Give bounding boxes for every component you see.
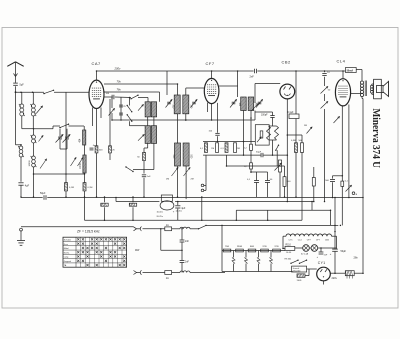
- wire IFT2 sec to caps: [243, 142, 245, 156]
- svg-text:20-25v: 20-25v: [157, 216, 164, 218]
- svg-text:25: 25: [112, 150, 115, 152]
- resistor R6 0.1M box: [288, 112, 300, 119]
- coil L2 antenna secondary: [30, 92, 53, 129]
- svg-text:1A: 1A: [166, 224, 169, 227]
- capacitor C20 electrolytic: [317, 252, 328, 259]
- wire IFT2 secondary bottom: [244, 111, 252, 142]
- svg-text:HS 362: HS 362: [285, 258, 293, 260]
- capacitor C6 25pF: [119, 105, 126, 108]
- trimmer capacitor IFT1 primary: [166, 100, 173, 108]
- svg-text:28v: 28v: [354, 256, 359, 260]
- wire CA7 anode top: [96, 71, 98, 80]
- wire OSCB bottom right: [133, 143, 154, 169]
- terminal a: [352, 192, 357, 196]
- transformer IFT1 secondary winding 300: [183, 95, 192, 114]
- trimmer capacitor band set A: [56, 129, 64, 143]
- speaker LS magnet: [377, 86, 384, 93]
- lamp La1: [303, 245, 310, 252]
- svg-text:0,1: 0,1: [345, 180, 349, 182]
- svg-text:+: +: [317, 256, 319, 259]
- switch S8 det: [275, 145, 279, 167]
- surge arrester 2: [245, 251, 248, 272]
- detector filter frame: [255, 125, 269, 145]
- resistor R15 bus link: [101, 198, 108, 221]
- capacitor C13 50pF: [265, 172, 273, 197]
- wire filter drop: [161, 229, 182, 251]
- capacitor C7: [119, 113, 123, 115]
- svg-text:500: 500: [287, 181, 291, 183]
- resistor R5 50: [137, 152, 145, 173]
- svg-text:1A: 1A: [166, 277, 169, 280]
- wire IFT1 secondary bottom AVC: [112, 114, 255, 120]
- trimmer capacitor 50: [321, 87, 332, 94]
- svg-text:10-50v: 10-50v: [157, 212, 164, 214]
- svg-text:50µF: 50µF: [40, 192, 46, 195]
- svg-text:TA: TA: [64, 264, 67, 267]
- trimmer capacitor OSCB: [138, 135, 144, 141]
- coil L5 wave trap: [18, 145, 24, 182]
- svg-text:50µF: 50µF: [256, 152, 262, 154]
- svg-text:Schalter: Schalter: [64, 239, 72, 242]
- choke mains bottom: [180, 271, 190, 273]
- svg-text:1nF: 1nF: [147, 176, 151, 178]
- resistor R21 0.1M: [83, 183, 93, 221]
- wire antenna lead down: [15, 86, 17, 145]
- trimmer tone control: [346, 185, 352, 191]
- svg-text:200v: 200v: [114, 66, 121, 70]
- svg-text:Lang: Lang: [64, 257, 68, 259]
- trimmer capacitor osc secondary: [184, 168, 194, 181]
- capacitor C16 4uF electrolytic: [173, 202, 186, 221]
- resistor Rd5 97Ω: [273, 246, 281, 252]
- wire dropper left tie: [221, 225, 223, 271]
- svg-text:0,1µF: 0,1µF: [288, 112, 295, 114]
- wire det load: [255, 111, 273, 121]
- wire osc feed drop: [166, 71, 168, 95]
- svg-text:CL4: CL4: [337, 59, 346, 64]
- trimmer capacitor antenna: [36, 106, 42, 114]
- coil L8 zigzag: [267, 126, 271, 140]
- wire dropper row: [222, 250, 285, 252]
- svg-text:1M: 1M: [211, 148, 214, 150]
- transformer OSC secondary winding 500: [183, 143, 192, 166]
- svg-text:0,1M: 0,1M: [69, 187, 74, 189]
- resistor R9: [221, 143, 228, 166]
- svg-text:1,2: 1,2: [244, 148, 248, 150]
- resistor R23 1.2M: [244, 150, 268, 172]
- svg-text:100: 100: [209, 131, 213, 133]
- wire dropper bottom bus: [222, 271, 293, 273]
- wire CL4 top: [342, 71, 344, 79]
- svg-text:2nF: 2nF: [324, 254, 328, 256]
- tube CB2 envelope: [280, 84, 295, 99]
- wire CF7 cathode: [208, 103, 212, 120]
- svg-text:100pF: 100pF: [261, 114, 268, 116]
- svg-text:50: 50: [328, 90, 331, 92]
- svg-text:290Ω: 290Ω: [237, 246, 243, 248]
- coil L1 antenna primary: [19, 92, 33, 129]
- capacitor C15 50uF: [40, 192, 46, 200]
- transformer OT primary coil: [360, 81, 363, 97]
- svg-text:0,1: 0,1: [200, 148, 204, 150]
- svg-text:0,3: 0,3: [221, 148, 225, 150]
- switch S6 mains: [198, 225, 207, 230]
- resistor R14: [299, 135, 304, 220]
- svg-text:25: 25: [123, 106, 126, 108]
- svg-text:0,1: 0,1: [247, 179, 251, 181]
- wire CF7 top: [211, 71, 213, 78]
- svg-text:500: 500: [172, 155, 174, 160]
- svg-text:97Ω: 97Ω: [262, 246, 266, 248]
- svg-text:Mittel: Mittel: [64, 247, 69, 250]
- wire 50mA to transformer: [356, 70, 362, 82]
- svg-text:10: 10: [327, 72, 330, 74]
- svg-text:WW: WW: [135, 250, 140, 252]
- coil L3 434: [80, 126, 86, 145]
- svg-text:50: 50: [137, 157, 140, 159]
- svg-text:0,1M: 0,1M: [88, 187, 93, 189]
- svg-text:2M: 2M: [237, 148, 240, 150]
- resistor R8: [211, 143, 218, 153]
- svg-text:76v: 76v: [117, 87, 122, 91]
- svg-text:a: a: [356, 193, 358, 196]
- wire zigzag ties: [269, 126, 277, 155]
- resistor R19 surge: [345, 271, 354, 279]
- resistor Rd4 97Ω: [261, 246, 269, 252]
- svg-text:CB2: CB2: [282, 60, 292, 65]
- wire 200v anode bus: [97, 70, 346, 72]
- wire IFT1 primary bottom to osc transformer: [177, 114, 179, 143]
- voltage selector box: [292, 266, 307, 272]
- svg-text:4µF: 4µF: [181, 207, 186, 210]
- capacitor C3 4nF: [90, 145, 97, 150]
- wire IFT2 loop right: [295, 71, 297, 114]
- svg-text:300: 300: [172, 105, 174, 110]
- resistor R26 ballast box: [161, 195, 172, 201]
- coil L9 zigzag: [275, 126, 279, 140]
- tube CF7 envelope: [204, 78, 219, 103]
- heater filament chain: [283, 234, 337, 236]
- resistor R20 0.1M: [65, 126, 75, 197]
- wire CL4 cathode drops: [342, 105, 349, 226]
- resistor R22 1.2M: [244, 118, 253, 150]
- wire OSCA to OSCB links: [148, 117, 154, 126]
- svg-text:300: 300: [238, 103, 240, 107]
- capacitor C12 0.1uF: [247, 172, 259, 197]
- speaker LS cone: [383, 81, 389, 96]
- wire heater left drop: [283, 236, 285, 248]
- trimmer capacitor det: [252, 104, 259, 111]
- switch S5: [125, 166, 133, 172]
- transformer IFT2 primary winding: [238, 97, 246, 111]
- choke mains top: [180, 227, 190, 229]
- wire OT return: [362, 97, 363, 274]
- wire CY1 output: [330, 272, 363, 274]
- svg-text:4µF: 4µF: [25, 184, 30, 187]
- transformer IFT2 secondary winding: [248, 97, 256, 111]
- wire OSCB bottom left: [144, 143, 148, 152]
- switch S3 osc: [127, 98, 133, 113]
- svg-text:Gegend: Gegend: [64, 261, 71, 263]
- wire selector to CY1: [305, 269, 317, 276]
- resistor Rd3 84Ω: [248, 246, 256, 252]
- svg-text:CA7: CA7: [92, 61, 102, 66]
- trimmer capacitor CL4 cathode: [334, 117, 340, 124]
- switch S7 voltage: [285, 258, 308, 264]
- coil L6 osc 100: [31, 129, 37, 156]
- wire osc trimmer drop: [111, 97, 113, 108]
- resistor R7: [200, 143, 208, 183]
- svg-text:CL4: CL4: [298, 240, 303, 242]
- capacitor C18 2nF: [180, 240, 190, 243]
- wire bus B2: [85, 219, 303, 221]
- wire coupling column: [324, 71, 326, 202]
- trimmer capacitor IFT2 primary: [230, 100, 237, 108]
- svg-text:75Ω: 75Ω: [225, 246, 229, 248]
- wire mains bottom: [143, 272, 226, 274]
- resistor R4: [109, 99, 116, 160]
- svg-text:CY1: CY1: [318, 261, 326, 265]
- transformer OSCB primary winding: [145, 126, 150, 144]
- resistor R25 110ohm: [297, 274, 306, 282]
- terminal TA jacks: [201, 183, 206, 192]
- svg-text:0,3M: 0,3M: [291, 140, 296, 142]
- dial lamp assembly: [157, 201, 183, 218]
- svg-text:10000: 10000: [80, 162, 82, 169]
- resistor R12 500: [283, 166, 291, 197]
- lamp La2: [311, 245, 318, 252]
- resistor R18 tone: [341, 180, 349, 186]
- resistor Rd1 75Ω: [223, 246, 231, 252]
- svg-text:2M: 2M: [191, 179, 194, 181]
- trimmer capacitor osc A: [71, 158, 77, 167]
- transformer OT core: [365, 81, 366, 97]
- svg-text:70v: 70v: [117, 79, 122, 83]
- transformer OSCB secondary winding: [151, 126, 156, 144]
- svg-text:ZF = 128,5 kHz: ZF = 128,5 kHz: [77, 230, 100, 234]
- resistor R10: [234, 143, 240, 153]
- wire grid line to CA7: [16, 91, 90, 93]
- resistor R16 bus link: [129, 198, 136, 221]
- trimmer capacitor band set B: [60, 129, 70, 149]
- svg-text:110Ω: 110Ω: [297, 280, 302, 282]
- tube CL4 envelope: [335, 79, 350, 106]
- svg-text:10000: 10000: [29, 160, 31, 167]
- trimmer capacitor osc pad: [40, 159, 47, 169]
- wire coil bottoms tie: [34, 173, 85, 175]
- svg-text:500: 500: [325, 180, 329, 182]
- wire volume line: [227, 165, 285, 167]
- fuse F1 1A: [165, 224, 172, 231]
- surge arrester 1: [232, 251, 235, 272]
- wire CB2 output drop: [287, 99, 302, 202]
- wire B4 right down: [334, 198, 336, 249]
- wire tone feed: [333, 175, 343, 177]
- svg-text:500: 500: [190, 155, 192, 160]
- coil L4 1000: [80, 145, 86, 183]
- resistor R11 volume pot: [275, 160, 282, 197]
- label mains: [135, 250, 140, 252]
- wire CB2 diode in: [255, 84, 280, 104]
- capacitor C14 10: [322, 72, 330, 75]
- trimmer capacitor OSCA: [138, 105, 143, 111]
- capacitor C17 5000: [325, 176, 335, 198]
- wire 70v screen: [104, 84, 178, 95]
- transformer IFT1 primary winding 300: [172, 95, 181, 114]
- wire 76v line: [104, 92, 160, 102]
- svg-text:2nF: 2nF: [185, 262, 190, 264]
- capacitor C22 50uF series: [256, 152, 263, 158]
- surge arrester 3: [257, 251, 260, 272]
- trimmer capacitor L6: [39, 136, 44, 142]
- capacitor C4 100pF grid: [106, 93, 114, 99]
- mains plug top: [134, 227, 142, 231]
- svg-text:12-15v: 12-15v: [176, 211, 183, 213]
- junction antenna tap: [15, 91, 17, 93]
- svg-text:100: 100: [106, 93, 110, 95]
- antenna: [7, 62, 23, 83]
- wire lamp row: [295, 248, 337, 252]
- svg-text:CF7: CF7: [316, 240, 321, 242]
- resistor Rd2 290Ω: [236, 246, 244, 252]
- wire bus B1b dial feed: [116, 198, 159, 202]
- wire mains top: [143, 228, 199, 230]
- transformer OSC primary winding 500: [172, 143, 181, 166]
- svg-text:1,2: 1,2: [244, 166, 248, 168]
- ground symbol: [17, 228, 25, 245]
- capacitor C19 2nF: [180, 261, 190, 264]
- mains plug bottom: [134, 270, 142, 274]
- svg-text:2nF: 2nF: [185, 241, 190, 243]
- svg-text:5M: 5M: [304, 125, 307, 127]
- tube CA7 envelope: [89, 80, 104, 108]
- wire IFT2 loop left: [237, 71, 239, 97]
- wire bus B1c: [175, 201, 314, 203]
- tube CY1 envelope: [317, 267, 331, 284]
- switch S4 osc: [127, 114, 146, 126]
- svg-text:220v: 220v: [332, 277, 338, 280]
- svg-text:+: +: [173, 211, 175, 214]
- speaker LS frame: [372, 79, 382, 99]
- svg-text:97Ω: 97Ω: [274, 246, 278, 248]
- trimmer capacitor osc primary: [166, 168, 178, 181]
- svg-text:M-Var.: M-Var.: [64, 252, 70, 254]
- capacitor C1 5pF antenna series: [13, 83, 24, 87]
- wire S1 drop: [65, 92, 67, 126]
- svg-text:5µF: 5µF: [20, 84, 25, 87]
- wire CF7 grid stopper drop: [217, 103, 219, 133]
- svg-text:50µF: 50µF: [341, 250, 347, 253]
- wire band switch row: [53, 125, 84, 127]
- meter 50mA box: [346, 68, 357, 73]
- surge arrester 4: [270, 251, 273, 272]
- resistor R17: [312, 167, 315, 202]
- svg-text:50mA: 50mA: [347, 69, 354, 72]
- wire CA7 cathode pins: [93, 108, 102, 146]
- wire mid drop: [201, 198, 203, 221]
- svg-text:CY1: CY1: [288, 240, 293, 242]
- svg-text:Minerva 374 U: Minerva 374 U: [370, 109, 381, 169]
- trimmer capacitor IFT2 secondary: [256, 100, 263, 108]
- resistor R13: [291, 119, 298, 198]
- transformer OT secondary coil: [370, 85, 373, 93]
- capacitor C8 1nF: [142, 175, 151, 197]
- wire heater right drop: [336, 236, 338, 249]
- svg-text:6v 0,1A: 6v 0,1A: [301, 253, 309, 256]
- svg-text:CB2: CB2: [325, 240, 330, 242]
- svg-text:50: 50: [270, 179, 273, 181]
- trimmer capacitor AVC: [304, 125, 312, 134]
- wire bus B4 left: [21, 226, 134, 228]
- switch S1 wave change: [43, 90, 54, 95]
- wire bus B1 ground rail: [21, 197, 363, 199]
- capacitor C2 4uF cathode bypass: [18, 183, 29, 197]
- coil L7 osc 10000: [29, 156, 37, 197]
- wire filter column: [181, 229, 183, 273]
- transformer OSCA secondary winding: [151, 102, 156, 117]
- trimmer capacitor osc B: [78, 158, 84, 167]
- capacitor C10 100pF det: [209, 131, 220, 142]
- svg-text:Kurz: Kurz: [64, 244, 68, 246]
- fuse F2 1A: [165, 271, 172, 280]
- svg-text:R110: R110: [286, 244, 292, 246]
- wire antenna lead elbow: [16, 144, 22, 146]
- resistor R24 in frame: [260, 131, 263, 138]
- svg-text:434: 434: [80, 138, 82, 143]
- svg-text:84Ω: 84Ω: [250, 246, 254, 248]
- trimmer capacitor osc grid: [109, 109, 115, 121]
- svg-text:2nF: 2nF: [250, 76, 255, 79]
- svg-text:+: +: [330, 253, 332, 256]
- wire CF7 anode to IFT2: [219, 85, 238, 87]
- svg-text:10-30: 10-30: [286, 252, 292, 254]
- svg-text:400: 400: [99, 150, 103, 152]
- svg-text:2M: 2M: [166, 179, 169, 181]
- wire padder column: [120, 98, 122, 121]
- wire bus B4 right: [206, 224, 338, 226]
- wire CA7 g to osc: [104, 97, 148, 102]
- wire IFT1 secondary top to CF7 grid: [186, 88, 205, 95]
- wire bus B1 to B1d link: [311, 202, 313, 211]
- capacitor C21 50uF electrolytic: [330, 249, 347, 256]
- wire bus B1d: [236, 210, 330, 225]
- wire bus 155: [203, 154, 287, 156]
- capacitor C11 100pF: [261, 112, 275, 126]
- svg-text:CF7: CF7: [206, 61, 215, 66]
- switch S2 band: [59, 124, 69, 129]
- trimmer capacitor IFT1 secondary: [191, 100, 198, 108]
- resistor R3 CA7 cathode: [95, 146, 103, 197]
- switch S9 osc line: [130, 95, 138, 100]
- trimmer in frame: [257, 137, 261, 142]
- transformer OSCA primary winding: [145, 102, 150, 117]
- wire osc transformer drops: [178, 166, 187, 199]
- svg-text:220-240v: 220-240v: [293, 270, 301, 272]
- wire bus 141: [203, 141, 255, 143]
- switch position table: [63, 237, 127, 267]
- trimmer capacitor grid CL4: [321, 102, 328, 109]
- svg-text:CF7: CF7: [307, 240, 312, 242]
- resistor R110 box: [285, 244, 295, 254]
- wire CL4 anode: [351, 93, 361, 95]
- wire cap column lower: [334, 252, 336, 274]
- capacitor C5 2nF coupling: [250, 69, 257, 79]
